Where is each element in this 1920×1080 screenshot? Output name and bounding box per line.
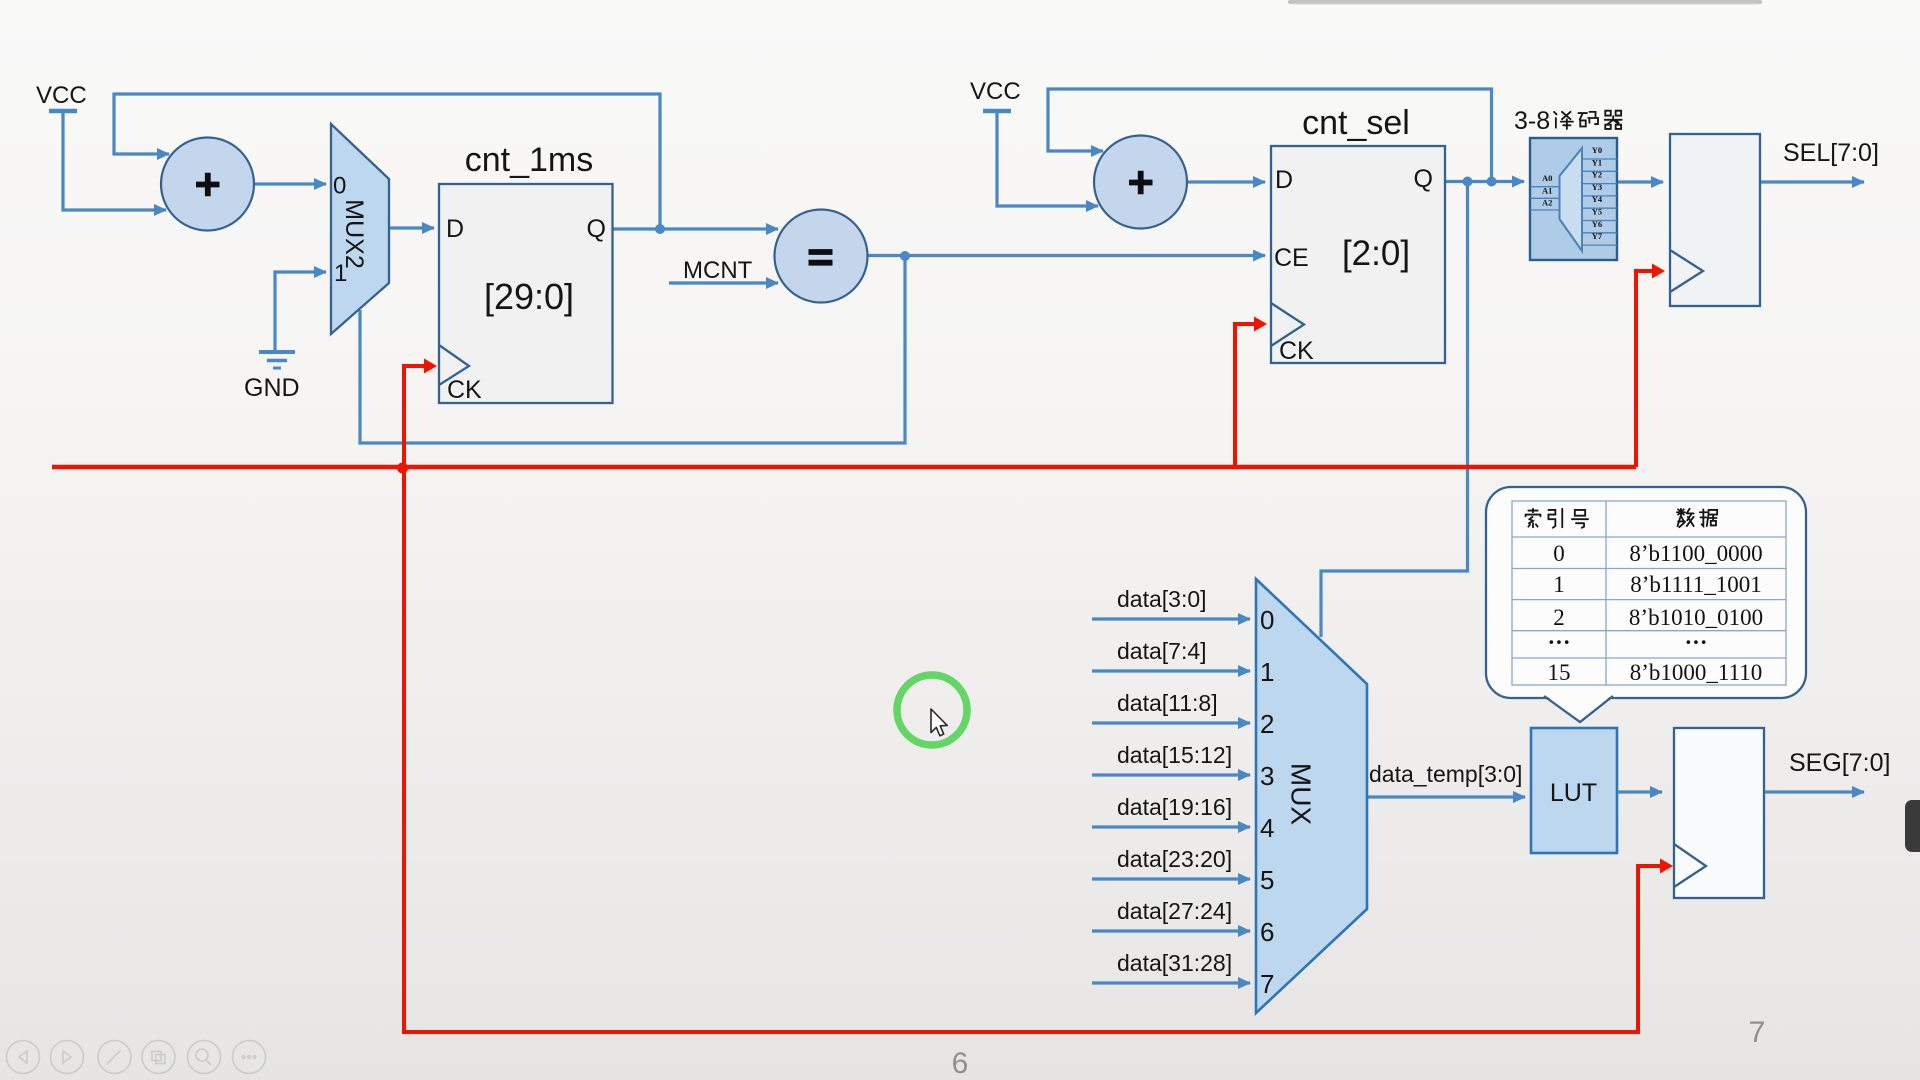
svg-text:1: 1: [1260, 657, 1274, 687]
svg-text:VCC: VCC: [36, 82, 87, 109]
wire cnt_sel Q to decoder input: [1445, 180, 1524, 183]
wire cnt_sel Q down to MUX select: [1321, 182, 1468, 638]
net labels data[31:0] nibbles: [1117, 586, 1232, 976]
clock wire branch to cnt_sel CK: [1235, 317, 1267, 468]
page number 7: [1749, 1016, 1766, 1049]
svg-text:0: 0: [1260, 605, 1274, 635]
svg-text:SEL[7:0]: SEL[7:0]: [1783, 139, 1879, 167]
wire decoder output to FF1: [1617, 180, 1663, 183]
svg-text:2: 2: [1260, 709, 1274, 739]
node on cnt_sel Q wire (feedback branch): [1487, 177, 1497, 187]
node on comparator output: [900, 251, 910, 261]
svg-text:···: ···: [1684, 630, 1707, 655]
decoder U1 3-8 decoder label: [1514, 107, 1622, 135]
svg-text:Y7: Y7: [1592, 231, 1603, 241]
ground GND: [244, 352, 300, 402]
power symbol VCC (right): [970, 78, 1021, 111]
svg-text:data_temp[3:0]: data_temp[3:0]: [1369, 761, 1522, 787]
wire cnt_1ms Q feedback to adder A1 upper input: [114, 94, 660, 229]
adder A2: [1094, 136, 1187, 229]
wire cnt_sel Q feedback to adder A2 upper input: [1048, 89, 1492, 182]
svg-text:15: 15: [1548, 660, 1571, 685]
svg-text:8’b1010_0100: 8’b1010_0100: [1629, 605, 1763, 630]
wire comparator output branch to MUX2 select: [360, 256, 905, 443]
register cnt_1ms: [439, 141, 613, 404]
comparator EQ (=): [775, 210, 868, 303]
svg-text:A2: A2: [1542, 197, 1552, 207]
svg-text:[29:0]: [29:0]: [484, 276, 574, 317]
svg-text:A1: A1: [1542, 186, 1552, 196]
svg-text:6: 6: [952, 1047, 969, 1080]
node on Q wire: [655, 224, 665, 234]
svg-text:0: 0: [1553, 541, 1565, 566]
svg-text:Y3: Y3: [1592, 182, 1602, 192]
svg-text:1: 1: [1553, 572, 1565, 597]
top popup shadow bar: [1288, 0, 1762, 5]
right edge tab: [1905, 800, 1920, 852]
mux MUX2: [331, 124, 389, 334]
svg-text:LUT: LUT: [1550, 779, 1597, 807]
flip-flop FF2: [1674, 728, 1764, 898]
power symbol VCC (left): [36, 82, 87, 111]
svg-text:6: 6: [1260, 917, 1274, 947]
clock net junction dot: [397, 463, 408, 474]
svg-text:data[19:16]: data[19:16]: [1117, 794, 1232, 820]
svg-text:5: 5: [1260, 865, 1274, 895]
output label SEL[7:0]: [1783, 139, 1879, 167]
LUT table grid: [1512, 501, 1786, 685]
svg-text:MCNT: MCNT: [683, 257, 753, 284]
svg-text:MUX2: MUX2: [340, 199, 368, 268]
svg-text:data[23:20]: data[23:20]: [1117, 846, 1232, 872]
svg-text:Q: Q: [1414, 165, 1433, 193]
wire comparator output to cnt_sel CE: [867, 254, 1265, 257]
svg-text:7: 7: [1749, 1016, 1766, 1049]
svg-text:Y2: Y2: [1592, 170, 1602, 180]
wire FF1 output SEL[7:0]: [1760, 180, 1864, 183]
cursor highlight ring: [897, 675, 967, 745]
svg-text:Y6: Y6: [1592, 219, 1602, 229]
wire data[15:12] to MUX input 3: [1092, 773, 1250, 776]
wire adder A1 output to MUX2 input 0: [254, 182, 327, 185]
svg-text:···: ···: [1547, 630, 1570, 655]
clock wire bottom run to FF2 CK: [404, 467, 1673, 1032]
svg-text:A0: A0: [1542, 173, 1552, 183]
svg-text:2: 2: [1553, 605, 1565, 630]
wire VCC1 to adder A1 lower input: [63, 113, 166, 210]
svg-text:data[27:24]: data[27:24]: [1117, 898, 1232, 924]
output label SEG[7:0]: [1789, 749, 1890, 777]
wire data[7:4] to MUX input 1: [1092, 669, 1250, 672]
clock wire branch to cnt_1ms CK: [404, 359, 437, 468]
wire data[11:8] to MUX input 2: [1092, 721, 1250, 724]
LUT contents callout bubble: [1486, 487, 1806, 722]
wire FF2 output SEG[7:0]: [1764, 790, 1864, 793]
net label data_temp[3:0]: [1369, 761, 1522, 787]
svg-text:SEG[7:0]: SEG[7:0]: [1789, 749, 1890, 777]
svg-text:data[3:0]: data[3:0]: [1117, 586, 1207, 612]
svg-text:8’b1111_1001: 8’b1111_1001: [1630, 572, 1762, 597]
flip-flop FF1: [1670, 134, 1760, 306]
svg-text:Y1: Y1: [1592, 157, 1602, 167]
wire MUX output data_temp to LUT: [1367, 795, 1525, 798]
adder A1: [161, 138, 254, 231]
mux MUX (8 to 1): [1256, 579, 1367, 1013]
svg-text:cnt_sel: cnt_sel: [1302, 104, 1410, 142]
svg-text:data[11:8]: data[11:8]: [1117, 690, 1218, 716]
wire GND to MUX2 input 1: [275, 272, 326, 350]
toolbar buttons: [7, 1041, 266, 1074]
wire cnt_1ms Q to comparator: [613, 227, 779, 230]
svg-text:3: 3: [1260, 761, 1274, 791]
svg-text:VCC: VCC: [970, 78, 1021, 105]
register cnt_sel: [1271, 104, 1445, 365]
svg-text:CK: CK: [447, 376, 482, 404]
svg-text:Y4: Y4: [1592, 194, 1603, 204]
wire VCC2 to adder A2 lower input: [997, 113, 1098, 206]
wire MUX2 output to cnt_1ms D: [389, 226, 434, 229]
wire data[3:0] to MUX input 0: [1092, 617, 1250, 620]
svg-text:cnt_1ms: cnt_1ms: [465, 141, 594, 179]
decoder U1 body: [1530, 138, 1617, 260]
svg-text:Y0: Y0: [1592, 145, 1602, 155]
svg-text:GND: GND: [244, 374, 300, 402]
svg-text:[2:0]: [2:0]: [1342, 234, 1410, 273]
svg-text:8’b1000_1110: 8’b1000_1110: [1630, 660, 1762, 685]
wire adder A2 output to cnt_sel D: [1187, 180, 1266, 183]
wire data[23:20] to MUX input 5: [1092, 877, 1250, 880]
LUT table header 索引号 / 数据: [1526, 509, 1718, 528]
svg-text:data[7:4]: data[7:4]: [1117, 638, 1207, 664]
svg-text:0: 0: [333, 173, 346, 200]
wire MCNT to comparator: [669, 281, 778, 284]
wire data[31:28] to MUX input 7: [1092, 981, 1250, 984]
svg-text:D: D: [1275, 166, 1293, 194]
LUT U2: [1531, 728, 1617, 853]
mouse cursor: [931, 709, 947, 736]
page number 6: [952, 1047, 969, 1080]
wire data[19:16] to MUX input 4: [1092, 825, 1250, 828]
clock net (red): main horizontal bus y=467: [52, 465, 1636, 469]
svg-text:3-8: 3-8: [1514, 107, 1550, 135]
svg-text:CK: CK: [1279, 337, 1314, 365]
svg-text:CE: CE: [1274, 244, 1309, 272]
node on cnt_sel Q wire (select branch): [1463, 177, 1473, 187]
svg-text:Y5: Y5: [1592, 207, 1602, 217]
wire LUT output to FF2: [1617, 790, 1662, 793]
svg-text:data[15:12]: data[15:12]: [1117, 742, 1232, 768]
svg-text:data[31:28]: data[31:28]: [1117, 950, 1232, 976]
net label MCNT: [683, 257, 753, 284]
svg-text:D: D: [446, 215, 464, 243]
svg-text:8’b1100_0000: 8’b1100_0000: [1629, 541, 1762, 566]
svg-text:7: 7: [1260, 969, 1274, 999]
svg-text:MUX: MUX: [1286, 763, 1317, 826]
svg-text:Q: Q: [587, 215, 606, 243]
wire data[27:24] to MUX input 6: [1092, 929, 1250, 932]
svg-text:4: 4: [1260, 813, 1274, 843]
clock wire branch to FF1 CK: [1636, 264, 1665, 468]
LUT table rows: [1547, 541, 1763, 685]
